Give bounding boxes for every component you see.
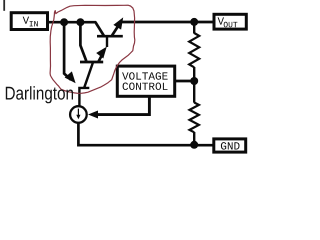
transistor Q2 emitter with arrow — [112, 26, 119, 36]
resistor R1 bottom lead — [193, 67, 195, 81]
resistor R1 zigzag — [189, 33, 199, 67]
annotation red loop around Darlington — [50, 5, 135, 93]
terminal box V_IN — [11, 13, 47, 30]
block VOLTAGE CONTROL U1 — [117, 66, 174, 96]
wire current source to ground rail — [78, 123, 213, 145]
wire voltage control to divider node — [175, 80, 194, 83]
node V_OUT junction dot — [190, 18, 198, 26]
transistor Q2 collector wire — [95, 22, 104, 36]
transistor Q1 collector wire — [80, 22, 86, 61]
stray mark top-left — [3, 0, 5, 11]
current source inner arrow — [77, 109, 79, 116]
node junction dot 1 — [60, 18, 68, 26]
resistor R2 bottom lead — [193, 132, 195, 145]
wire output rail to V_OUT — [121, 21, 215, 24]
transistor Q1 base lead — [84, 62, 93, 87]
wire voltage control to current source with arrow — [96, 97, 149, 115]
current source I1 circle — [70, 106, 87, 123]
wire from dot1 down with arrow — [64, 22, 71, 80]
wire V_IN to node — [47, 21, 96, 24]
label Darlington — [6, 86, 73, 103]
node ground junction dot — [190, 141, 198, 149]
transistor Q2 base bar — [97, 35, 123, 38]
terminal box GND — [214, 139, 246, 152]
node junction dot 2 — [76, 18, 84, 26]
node divider junction dot — [190, 77, 198, 85]
resistor R1 top lead — [193, 22, 195, 34]
resistor R2 top lead — [193, 81, 195, 103]
transistor Q2 base lead — [106, 36, 108, 47]
terminal box V_OUT — [214, 14, 246, 29]
resistor R2 zigzag — [190, 103, 199, 133]
transistor Q1 base bar — [80, 61, 103, 64]
transistor Q1 emitter with arrow — [99, 54, 103, 62]
